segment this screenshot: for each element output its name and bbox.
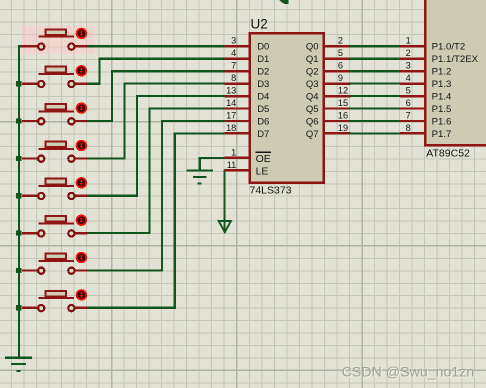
- AT89C52 pin 1 (P1.0/T2): [400, 36, 425, 47]
- svg-text:CSDN @Swu_no1zn: CSDN @Swu_no1zn: [342, 365, 475, 381]
- push button 2: [22, 65, 88, 87]
- svg-text:11: 11: [227, 160, 237, 170]
- junction: [16, 193, 22, 198]
- svg-text:U2: U2: [251, 17, 268, 32]
- svg-text:D2: D2: [257, 67, 269, 78]
- svg-text:3: 3: [406, 61, 411, 71]
- svg-text:Q3: Q3: [306, 79, 319, 90]
- svg-text:8: 8: [231, 73, 236, 83]
- wire: OE to ground: [200, 158, 226, 170]
- wire: Q5 to P1.5: [349, 107, 401, 109]
- svg-text:AT89C52: AT89C52: [426, 147, 470, 159]
- off-sheet arrow fragment: [279, 0, 288, 4]
- svg-text:6: 6: [406, 98, 411, 108]
- wire: Q7 to P1.7: [349, 132, 401, 134]
- wire: ground bus: [19, 46, 23, 357]
- svg-text:5: 5: [406, 86, 411, 96]
- wire: Q2 to P1.2: [349, 70, 401, 72]
- wire: button 5 to D4: [87, 96, 225, 196]
- svg-text:Q1: Q1: [306, 54, 319, 65]
- U2 pin 15 (Q5): [325, 98, 351, 109]
- U2 pin 7 (D2): [224, 61, 249, 72]
- wire: button 3 to D2: [87, 71, 225, 121]
- U2 pin 18 (D7): [224, 123, 249, 134]
- svg-text:6: 6: [338, 61, 343, 71]
- svg-text:P1.3: P1.3: [432, 79, 452, 90]
- junction: [16, 231, 22, 236]
- U2 pin 9 (Q3): [325, 73, 351, 84]
- wire: Q4 to P1.4: [349, 95, 401, 97]
- svg-text:Q6: Q6: [306, 116, 319, 127]
- U2 pin 12 (Q4): [325, 86, 351, 97]
- svg-text:4: 4: [231, 48, 236, 58]
- svg-text:19: 19: [338, 123, 348, 133]
- wire: Q6 to P1.6: [349, 120, 401, 122]
- U2 pin 8 (D3): [224, 73, 249, 84]
- junction: [16, 81, 22, 86]
- svg-text:P1.1/T2EX: P1.1/T2EX: [432, 54, 479, 65]
- U2 pin 11 (LE): [224, 160, 249, 171]
- AT89C52 pin 8 (P1.7): [400, 123, 425, 134]
- wire: LE down: [223, 170, 226, 230]
- svg-text:13: 13: [226, 86, 236, 96]
- svg-text:P1.7: P1.7: [432, 129, 452, 140]
- svg-text:2: 2: [406, 48, 411, 58]
- wire: Q3 to P1.3: [349, 82, 401, 84]
- svg-text:7: 7: [406, 110, 411, 120]
- U2 pin 4 (D1): [224, 48, 249, 59]
- U2 pin 2 (Q0): [325, 36, 351, 47]
- wire: button 6 to D5: [87, 109, 225, 234]
- wire: button 1 to D0: [87, 45, 225, 47]
- svg-text:D0: D0: [257, 42, 269, 53]
- svg-text:12: 12: [338, 86, 348, 96]
- U2 pin 16 (Q6): [325, 110, 351, 121]
- svg-text:OE: OE: [256, 153, 271, 165]
- svg-text:8: 8: [406, 123, 411, 133]
- U2 pin 13 (D4): [224, 86, 249, 97]
- svg-text:D3: D3: [257, 79, 269, 90]
- ground (OE): [187, 171, 213, 184]
- svg-text:D1: D1: [257, 54, 269, 65]
- U2 pin 3 (D0): [224, 36, 249, 47]
- svg-text:17: 17: [226, 110, 236, 120]
- U2 pin 1 (OE): [224, 147, 249, 158]
- U2 pin 19 (Q7): [325, 123, 351, 134]
- svg-text:9: 9: [338, 73, 343, 83]
- push button 5: [22, 177, 88, 199]
- push button 8: [22, 289, 88, 311]
- svg-text:16: 16: [338, 110, 348, 120]
- U2 pin 17 (D6): [224, 110, 249, 121]
- wire: button 2 to D1: [87, 59, 225, 84]
- AT89C52 pin 3 (P1.2): [400, 61, 425, 72]
- junction: [16, 156, 22, 161]
- selection highlight: [22, 25, 95, 54]
- svg-text:14: 14: [226, 98, 236, 108]
- svg-text:P1.0/T2: P1.0/T2: [432, 42, 466, 53]
- svg-text:LE: LE: [256, 166, 269, 178]
- junction: [16, 305, 22, 310]
- svg-text:4: 4: [406, 73, 411, 83]
- microcontroller AT89C52: [425, 0, 486, 159]
- svg-text:1: 1: [231, 147, 236, 157]
- push button 6: [22, 215, 88, 237]
- U2 pin 6 (Q2): [325, 61, 351, 72]
- svg-text:Q0: Q0: [306, 42, 319, 53]
- U2 pin 5 (Q1): [325, 48, 351, 59]
- svg-text:15: 15: [338, 98, 348, 108]
- svg-text:Q4: Q4: [306, 92, 319, 103]
- svg-text:Q2: Q2: [306, 67, 319, 78]
- wire: button 8 to D7: [87, 133, 225, 307]
- AT89C52 pin 2 (P1.1/T2EX): [400, 48, 425, 59]
- svg-text:P1.2: P1.2: [432, 67, 452, 78]
- terminal arrow (LE): [219, 221, 231, 232]
- AT89C52 pin 5 (P1.4): [400, 86, 425, 97]
- svg-text:D6: D6: [257, 116, 269, 127]
- svg-text:74LS373: 74LS373: [250, 185, 292, 197]
- svg-text:P1.6: P1.6: [432, 116, 452, 127]
- U2 pin 14 (D5): [224, 98, 249, 109]
- svg-text:P1.4: P1.4: [432, 92, 452, 103]
- wire: Q1 to P1.1: [349, 58, 401, 60]
- AT89C52 pin 6 (P1.5): [400, 98, 425, 109]
- svg-text:D5: D5: [257, 104, 269, 115]
- junction: [16, 118, 22, 123]
- wire: button 4 to D3: [87, 84, 225, 159]
- svg-text:Q5: Q5: [306, 104, 319, 115]
- latch U2 74LS373: [250, 17, 324, 197]
- svg-text:Q7: Q7: [306, 129, 319, 140]
- svg-text:3: 3: [231, 36, 236, 46]
- push button 1: [22, 28, 88, 50]
- ground: [5, 358, 32, 371]
- svg-text:7: 7: [231, 61, 236, 71]
- svg-text:5: 5: [338, 48, 343, 58]
- svg-text:2: 2: [338, 36, 343, 46]
- push button 7: [22, 252, 88, 274]
- junction: [16, 268, 22, 273]
- svg-text:D4: D4: [257, 92, 269, 103]
- AT89C52 pin 7 (P1.6): [400, 110, 425, 121]
- push button 4: [22, 140, 88, 162]
- svg-text:18: 18: [226, 123, 236, 133]
- wire: Q0 to P1.0: [349, 45, 401, 47]
- wire: button 7 to D6: [87, 121, 225, 270]
- push button 3: [22, 102, 88, 124]
- svg-text:P1.5: P1.5: [432, 104, 452, 115]
- AT89C52 pin 4 (P1.3): [400, 73, 425, 84]
- svg-text:D7: D7: [257, 129, 269, 140]
- svg-text:1: 1: [406, 36, 411, 46]
